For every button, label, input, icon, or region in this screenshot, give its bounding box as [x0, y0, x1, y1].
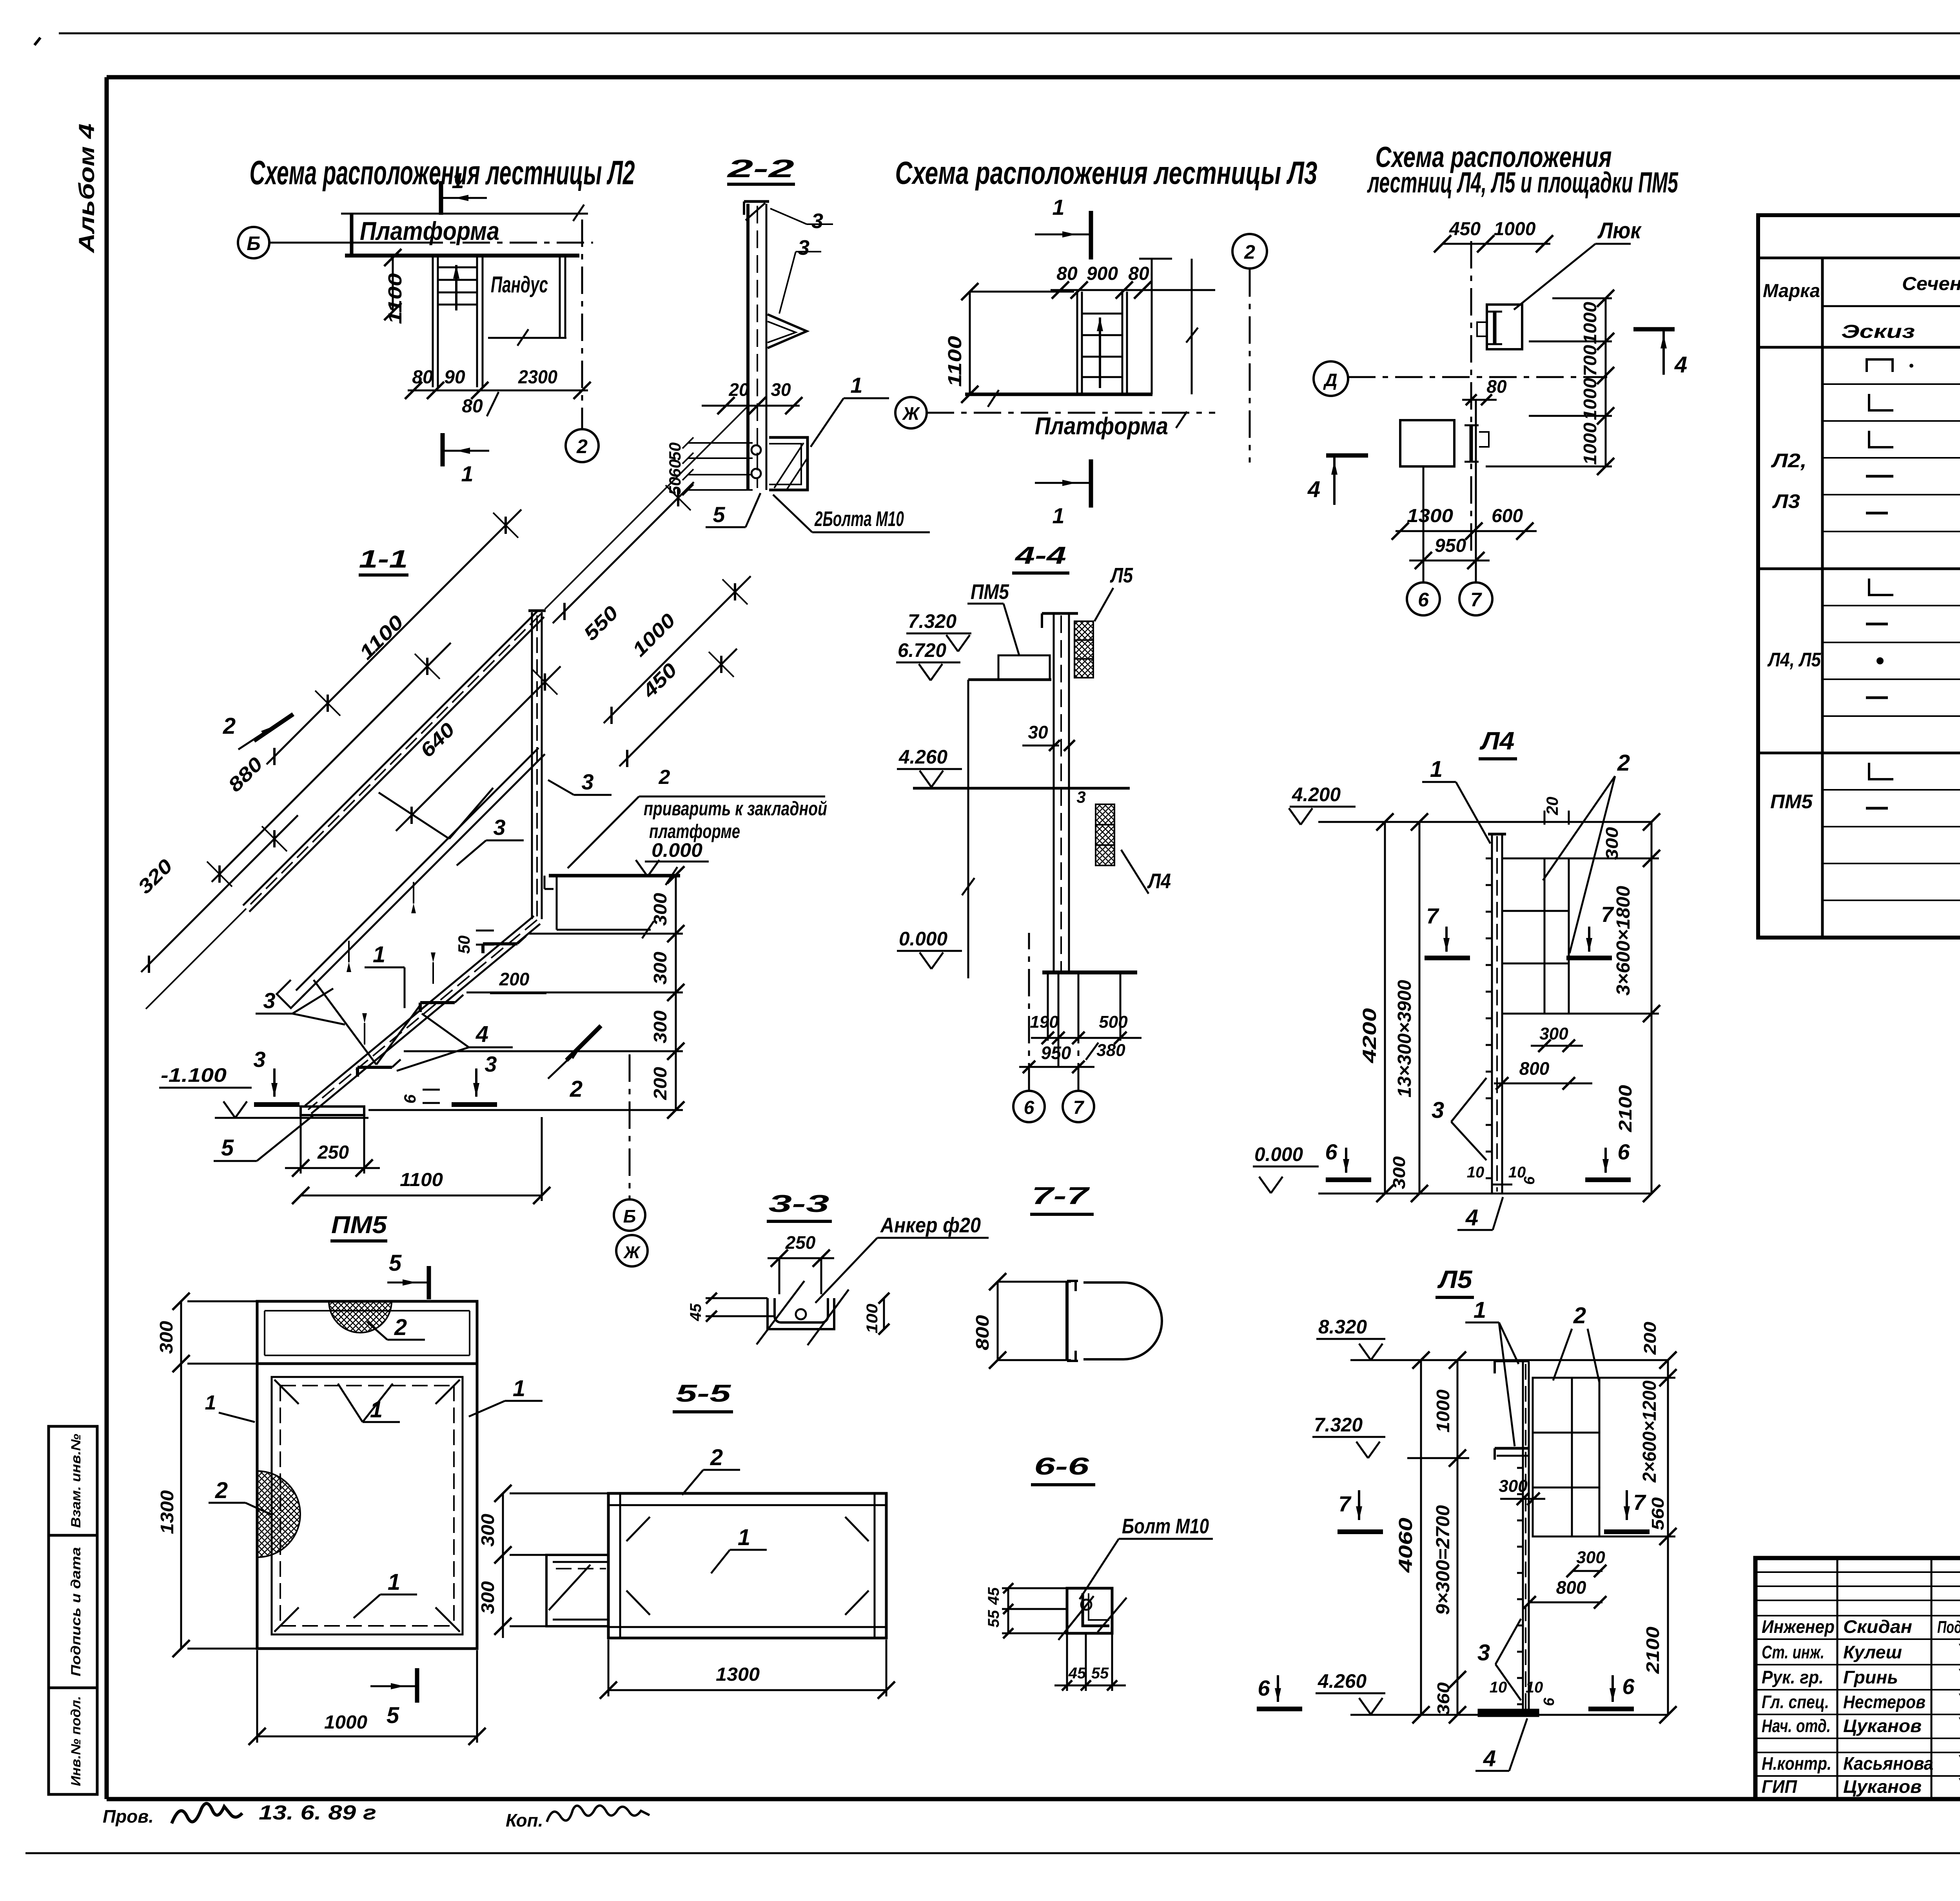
svg-text:1: 1 — [513, 1376, 525, 1401]
svg-text:4.260: 4.260 — [898, 746, 947, 768]
svg-text:450: 450 — [1449, 219, 1481, 239]
svg-text:1300: 1300 — [716, 1664, 760, 1685]
svg-text:‶: ‶ — [1955, 1666, 1960, 1688]
svg-text:45: 45 — [985, 1587, 1002, 1605]
svg-text:4060: 4060 — [1396, 1518, 1416, 1573]
svg-text:0.000: 0.000 — [899, 928, 947, 950]
svg-text:5: 5 — [221, 1135, 234, 1161]
svg-text:Альбом 4: Альбом 4 — [74, 123, 99, 254]
svg-text:4.200: 4.200 — [1292, 784, 1341, 805]
svg-text:200: 200 — [1641, 1321, 1660, 1355]
svg-text:Ж: Ж — [902, 403, 920, 424]
svg-text:Пров.: Пров. — [103, 1806, 154, 1827]
svg-text:250: 250 — [785, 1232, 816, 1253]
svg-text:950: 950 — [1435, 535, 1466, 556]
svg-text:250: 250 — [317, 1142, 349, 1163]
svg-text:300: 300 — [650, 893, 670, 926]
svg-text:2: 2 — [576, 435, 588, 457]
svg-text:1000: 1000 — [1580, 423, 1600, 465]
svg-text:3-3: 3-3 — [769, 1190, 829, 1217]
svg-text:80: 80 — [1128, 263, 1149, 284]
svg-text:3: 3 — [253, 1047, 265, 1072]
svg-text:2-2: 2-2 — [727, 154, 794, 183]
svg-text:3: 3 — [1477, 1640, 1490, 1665]
svg-text:4: 4 — [1674, 352, 1687, 377]
svg-text:Инв.№ подл.: Инв.№ подл. — [69, 1696, 83, 1786]
svg-text:800: 800 — [972, 1315, 993, 1350]
svg-text:Н.контр.: Н.контр. — [1762, 1753, 1831, 1774]
svg-text:8.320: 8.320 — [1318, 1316, 1367, 1338]
svg-text:6: 6 — [1418, 589, 1429, 611]
svg-text:190: 190 — [1030, 1012, 1059, 1032]
svg-text:7-7: 7-7 — [1032, 1183, 1090, 1210]
svg-text:Скидан: Скидан — [1843, 1616, 1912, 1637]
svg-text:Коп.: Коп. — [506, 1810, 543, 1830]
svg-text:6.720: 6.720 — [898, 639, 946, 661]
svg-text:45: 45 — [687, 1303, 704, 1321]
svg-text:80: 80 — [462, 396, 483, 417]
svg-text:300: 300 — [650, 1010, 670, 1043]
svg-text:Ст. инж.: Ст. инж. — [1762, 1642, 1824, 1662]
svg-text:3: 3 — [811, 209, 823, 233]
svg-text:700: 700 — [1580, 345, 1600, 376]
svg-text:2300: 2300 — [518, 367, 557, 388]
svg-text:2: 2 — [710, 1445, 723, 1470]
svg-text:80: 80 — [412, 367, 433, 388]
svg-text:1100: 1100 — [945, 336, 965, 387]
svg-text:3: 3 — [263, 988, 275, 1013]
svg-text:6: 6 — [1325, 1139, 1338, 1164]
svg-text:6: 6 — [1521, 1176, 1538, 1185]
svg-text:60: 60 — [666, 459, 684, 478]
svg-text:7: 7 — [1073, 1097, 1085, 1118]
svg-text:Б: Б — [247, 232, 260, 254]
svg-text:90: 90 — [444, 367, 465, 388]
svg-text:45: 45 — [1068, 1665, 1086, 1682]
svg-text:Анкер ф20: Анкер ф20 — [880, 1214, 981, 1237]
svg-text:‶: ‶ — [1955, 1775, 1960, 1797]
svg-text:Подпись: Подпись — [1937, 1618, 1960, 1637]
svg-text:4: 4 — [475, 1021, 488, 1047]
svg-text:4-4: 4-4 — [1014, 542, 1066, 569]
svg-text:10: 10 — [1467, 1164, 1485, 1181]
svg-text:7.320: 7.320 — [908, 610, 956, 632]
svg-text:300: 300 — [650, 952, 670, 985]
svg-text:Сечение: Сечение — [1902, 274, 1960, 294]
svg-text:Цуканов: Цуканов — [1843, 1776, 1922, 1797]
svg-text:2: 2 — [1617, 750, 1630, 776]
svg-text:Л4, Л5: Л4, Л5 — [1767, 649, 1821, 671]
svg-text:Гл. спец.: Гл. спец. — [1762, 1692, 1829, 1712]
svg-text:2: 2 — [1573, 1303, 1586, 1328]
svg-text:7: 7 — [1338, 1491, 1352, 1516]
svg-text:Касьянова: Касьянова — [1843, 1753, 1933, 1774]
svg-text:200: 200 — [499, 969, 530, 989]
svg-text:3: 3 — [485, 1052, 497, 1076]
svg-text:Взам. инв.№: Взам. инв.№ — [69, 1434, 83, 1528]
svg-text:7: 7 — [1426, 903, 1439, 928]
svg-text:1: 1 — [850, 373, 862, 397]
svg-text:800: 800 — [1519, 1058, 1550, 1079]
svg-text:ПМ5: ПМ5 — [971, 580, 1009, 604]
svg-text:500: 500 — [1099, 1012, 1128, 1032]
svg-text:30: 30 — [1028, 722, 1048, 742]
svg-text:2: 2 — [1244, 241, 1255, 263]
svg-text:900: 900 — [1087, 263, 1118, 284]
svg-text:6: 6 — [1541, 1698, 1557, 1706]
svg-text:50: 50 — [455, 936, 473, 954]
svg-text:1: 1 — [373, 942, 385, 967]
svg-text:Рук. гр.: Рук. гр. — [1762, 1667, 1824, 1687]
svg-text:2100: 2100 — [1642, 1627, 1663, 1674]
svg-text:Л5: Л5 — [1110, 564, 1133, 587]
svg-text:300: 300 — [1539, 1024, 1568, 1043]
svg-text:-1.100: -1.100 — [161, 1064, 227, 1086]
svg-text:‶: ‶ — [1955, 1714, 1960, 1736]
svg-text:55: 55 — [985, 1610, 1002, 1627]
svg-text:3: 3 — [1076, 788, 1085, 806]
svg-text:1: 1 — [461, 461, 473, 486]
svg-text:9×300=2700: 9×300=2700 — [1433, 1505, 1454, 1615]
svg-text:Схема расположения лестницы Л3: Схема расположения лестницы Л3 — [895, 155, 1318, 191]
svg-text:1000: 1000 — [1433, 1389, 1453, 1433]
svg-text:‶: ‶ — [1955, 1691, 1960, 1712]
svg-text:10: 10 — [1526, 1679, 1543, 1696]
svg-text:3: 3 — [1432, 1097, 1444, 1123]
svg-text:2: 2 — [223, 713, 236, 739]
svg-text:300: 300 — [1390, 1156, 1409, 1189]
svg-text:13×300×3900: 13×300×3900 — [1394, 980, 1415, 1097]
svg-text:Ж: Ж — [623, 1243, 641, 1262]
svg-text:3×600×1800: 3×600×1800 — [1613, 886, 1634, 996]
svg-text:1: 1 — [388, 1569, 400, 1595]
svg-text:3: 3 — [798, 236, 809, 259]
svg-text:7: 7 — [1470, 589, 1482, 611]
svg-text:6: 6 — [1622, 1674, 1635, 1699]
svg-text:80: 80 — [1486, 376, 1507, 397]
svg-text:200: 200 — [650, 1067, 670, 1101]
svg-text:0.000: 0.000 — [1254, 1143, 1303, 1165]
svg-text:1300: 1300 — [157, 1490, 177, 1534]
svg-text:300: 300 — [477, 1581, 498, 1614]
svg-text:1: 1 — [205, 1391, 216, 1414]
svg-text:560: 560 — [1648, 1497, 1668, 1530]
svg-text:1: 1 — [1052, 195, 1064, 219]
svg-text:950: 950 — [1041, 1043, 1071, 1063]
svg-text:Инженер: Инженер — [1762, 1616, 1835, 1637]
svg-text:1: 1 — [1430, 756, 1443, 782]
svg-text:300: 300 — [1499, 1477, 1528, 1496]
svg-text:4: 4 — [1307, 477, 1320, 502]
svg-text:2: 2 — [394, 1315, 407, 1340]
svg-text:300: 300 — [1576, 1548, 1605, 1567]
svg-text:5: 5 — [387, 1703, 399, 1728]
svg-text:ПМ5: ПМ5 — [331, 1212, 388, 1239]
svg-text:1100: 1100 — [385, 273, 406, 324]
svg-text:1000: 1000 — [1580, 302, 1600, 344]
svg-text:5: 5 — [713, 502, 725, 527]
svg-text:Нестеров: Нестеров — [1843, 1692, 1926, 1712]
svg-text:Платформа: Платформа — [360, 216, 499, 245]
svg-text:1: 1 — [1052, 503, 1064, 528]
svg-text:80: 80 — [1056, 263, 1078, 284]
svg-text:100: 100 — [864, 1304, 881, 1333]
svg-text:Гринь: Гринь — [1843, 1667, 1898, 1687]
svg-text:приварить к закладной: приварить к закладной — [644, 798, 827, 820]
svg-text:1-1: 1-1 — [359, 545, 408, 573]
svg-text:2×600×1200: 2×600×1200 — [1639, 1380, 1660, 1483]
svg-text:4.260: 4.260 — [1318, 1670, 1367, 1692]
svg-text:0.000: 0.000 — [652, 839, 702, 861]
svg-text:Д: Д — [1323, 370, 1337, 390]
svg-text:380: 380 — [1096, 1041, 1125, 1060]
svg-text:20: 20 — [728, 379, 749, 400]
svg-text:1: 1 — [738, 1525, 750, 1550]
svg-text:2100: 2100 — [1615, 1085, 1635, 1133]
svg-text:Л5: Л5 — [1437, 1265, 1473, 1293]
svg-text:1100: 1100 — [400, 1170, 443, 1190]
svg-text:ГИП: ГИП — [1762, 1776, 1797, 1797]
svg-text:4: 4 — [1465, 1205, 1478, 1230]
svg-text:2Болта М10: 2Болта М10 — [814, 507, 904, 531]
svg-text:600: 600 — [1492, 506, 1523, 526]
svg-text:Нач. отд.: Нач. отд. — [1762, 1716, 1831, 1736]
svg-text:5: 5 — [389, 1250, 402, 1276]
svg-text:30: 30 — [771, 379, 791, 400]
svg-text:800: 800 — [1556, 1577, 1586, 1598]
svg-text:2: 2 — [215, 1478, 228, 1503]
svg-text:1000: 1000 — [1494, 219, 1536, 239]
svg-text:6: 6 — [1617, 1139, 1630, 1164]
svg-text:2: 2 — [570, 1076, 583, 1102]
svg-text:6: 6 — [1024, 1097, 1034, 1118]
svg-text:13. 6. 89 г: 13. 6. 89 г — [259, 1801, 376, 1824]
svg-text:10: 10 — [1490, 1679, 1507, 1696]
svg-text:360: 360 — [1434, 1682, 1453, 1715]
svg-text:7: 7 — [1633, 1490, 1646, 1515]
svg-text:55: 55 — [1091, 1665, 1109, 1682]
svg-text:Л4: Л4 — [1147, 869, 1171, 893]
svg-text:3: 3 — [493, 815, 505, 840]
svg-text:Б: Б — [623, 1206, 636, 1226]
svg-text:300: 300 — [1602, 827, 1622, 860]
svg-text:1: 1 — [1474, 1297, 1486, 1323]
svg-text:‶: ‶ — [1955, 1641, 1960, 1663]
svg-text:6: 6 — [1258, 1676, 1270, 1700]
svg-text:300: 300 — [156, 1321, 176, 1354]
svg-text:Кулеш: Кулеш — [1843, 1642, 1902, 1662]
svg-text:20: 20 — [1543, 797, 1561, 816]
svg-text:Л3: Л3 — [1772, 490, 1800, 512]
svg-text:Пандус: Пандус — [491, 272, 548, 297]
svg-text:300: 300 — [477, 1514, 498, 1547]
svg-text:7.320: 7.320 — [1314, 1414, 1363, 1436]
svg-text:1300: 1300 — [1407, 506, 1453, 526]
svg-text:1000: 1000 — [1580, 378, 1600, 420]
svg-text:Платформа: Платформа — [1035, 413, 1168, 440]
svg-text:5-5: 5-5 — [676, 1380, 731, 1407]
svg-text:Цуканов: Цуканов — [1843, 1716, 1922, 1736]
svg-text:лестниц Л4, Л5 и площадки ПМ5: лестниц Л4, Л5 и площадки ПМ5 — [1367, 166, 1679, 199]
svg-text:2: 2 — [659, 766, 670, 789]
svg-text:4: 4 — [1483, 1746, 1496, 1771]
svg-text:3: 3 — [581, 769, 593, 794]
svg-text:Подпись и дата: Подпись и дата — [69, 1547, 83, 1676]
svg-text:50: 50 — [666, 443, 684, 461]
svg-text:Болт М10: Болт М10 — [1122, 1515, 1209, 1538]
svg-text:Эскиз: Эскиз — [1841, 321, 1915, 342]
svg-text:Л2,: Л2, — [1771, 450, 1807, 472]
svg-text:Л4: Л4 — [1479, 727, 1514, 755]
svg-text:Марка: Марка — [1763, 281, 1820, 301]
svg-text:ПМ5: ПМ5 — [1770, 791, 1813, 813]
svg-text:6: 6 — [401, 1094, 419, 1104]
svg-text:Люк: Люк — [1597, 218, 1642, 243]
svg-text:‶: ‶ — [1955, 1752, 1960, 1774]
svg-text:4200: 4200 — [1359, 1008, 1380, 1064]
svg-text:1: 1 — [452, 168, 464, 193]
svg-text:1000: 1000 — [324, 1712, 367, 1733]
svg-text:7: 7 — [1601, 902, 1614, 927]
svg-text:6-6: 6-6 — [1034, 1453, 1089, 1480]
